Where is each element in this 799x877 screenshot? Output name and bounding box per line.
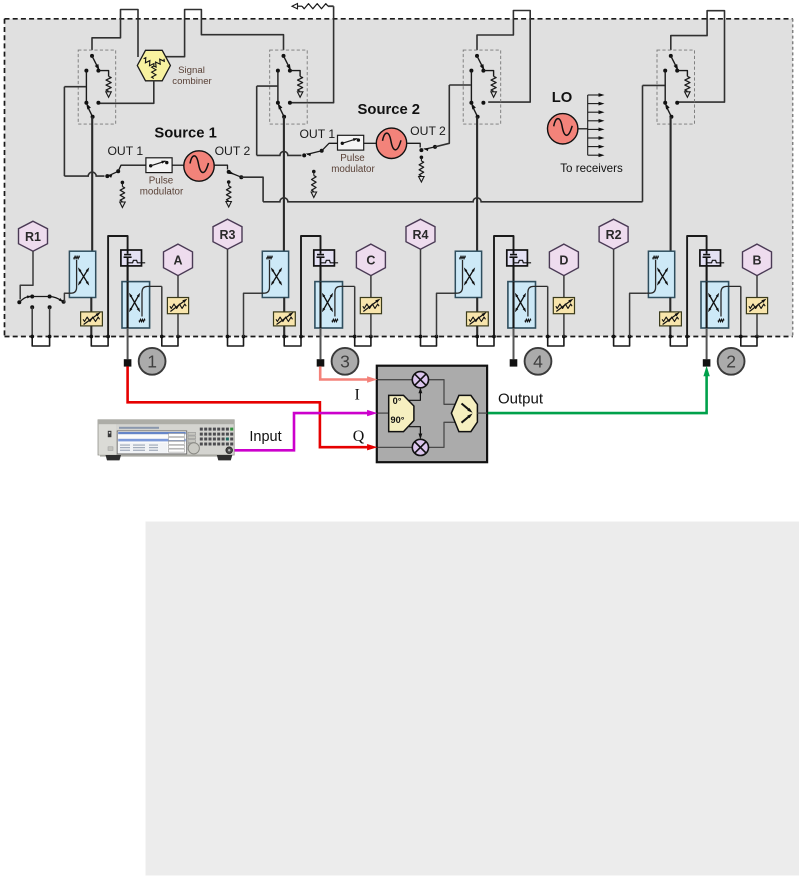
diagram background panel [5, 19, 793, 337]
wire attenuator to jumper port4 [476, 326, 478, 337]
front-panel jumper R3 [226, 335, 246, 346]
label pulse modulator source2 [331, 153, 375, 175]
label pulse modulator source1 [140, 176, 184, 198]
wire D to attenuator [563, 276, 565, 298]
label I [355, 387, 360, 404]
svg-text:modulator: modulator [140, 187, 184, 198]
svg-text:LO: LO [552, 90, 573, 106]
resistor R-term top external [298, 4, 334, 9]
wire bias to coupler B port4 [512, 266, 514, 282]
label signal combiner [172, 65, 212, 87]
svg-text:1: 1 [147, 352, 157, 372]
wire SW1 main vertical [91, 117, 93, 252]
wire attenuator to jumper port2 [669, 326, 671, 337]
wire mixer1 to combiner [429, 380, 456, 405]
wire attenuator B to jumper port3 [370, 314, 372, 337]
switch box SW3 (source2 out2) dashed outline and contacts [463, 50, 501, 124]
label Source 1 [154, 125, 217, 141]
step attenuator A port4 [467, 298, 489, 326]
wire coupled arm to jumper port2 [740, 286, 742, 336]
wire loop port2 switch pole [671, 11, 725, 102]
node B hexagon [743, 244, 772, 276]
mixer M1 [412, 372, 428, 388]
bottom gray placeholder panel [146, 522, 799, 876]
label OUT 1 source2 [299, 127, 335, 141]
step attenuator A port2 [660, 298, 682, 326]
ground top external [292, 4, 298, 9]
wire SW4 main vertical [670, 117, 672, 251]
svg-text:90°: 90° [391, 415, 405, 425]
front-panel jumper source path port3 [282, 335, 303, 346]
pulse modulator U2 source2 [338, 135, 364, 150]
svg-text:R4: R4 [413, 228, 429, 242]
wire pulsemod2 to source2 [364, 142, 377, 144]
wire attenuator B to jumper port4 [563, 314, 565, 337]
svg-text:R3: R3 [220, 228, 236, 242]
port 1 connector square [124, 359, 132, 366]
splitter to mixer2 arrow [409, 427, 422, 440]
bias pulse box port3 [314, 250, 338, 266]
dashed border top [5, 18, 793, 20]
step attenuator B port1 [167, 297, 188, 313]
node C hexagon [356, 244, 385, 276]
wire source1 to out2 switch [214, 165, 227, 169]
front-panel jumper R4 [419, 335, 439, 346]
source 1 oscillator [184, 151, 214, 181]
wire combiner to output [477, 412, 487, 414]
label OUT 2 source2 [410, 124, 446, 138]
wire bias to coupler B port3 [319, 266, 321, 282]
svg-text:Source 1: Source 1 [154, 125, 217, 141]
switch source1 out1 [105, 165, 146, 178]
wire R1 to transfer switch [20, 251, 33, 299]
bias pulse box port2 [700, 250, 724, 266]
wire coupled arm to jumper port1 [161, 286, 163, 336]
step attenuator B port2 [746, 297, 767, 313]
port 4 connector square [510, 359, 518, 366]
svg-text:D: D [559, 254, 568, 268]
front-panel jumper R1 [30, 335, 51, 346]
coupler box A port3 [261, 251, 289, 297]
wire attenuator to jumper port3 [283, 326, 285, 337]
LO oscillator [548, 114, 578, 144]
step attenuator B port3 [360, 297, 381, 313]
source 2 oscillator [376, 128, 406, 158]
wire source2 out2 to SW3 [435, 85, 449, 147]
wire source1 out2 to port2 switch [241, 85, 642, 201]
wire jumper to port path port3 [301, 236, 321, 337]
wire jumper to port path port2 [687, 236, 707, 337]
bias pulse box port4 [507, 250, 531, 266]
front-panel jumper receiver port4 [546, 335, 566, 346]
wire port line port2 [706, 328, 708, 359]
front-panel jumper receiver port3 [353, 335, 373, 346]
svg-text:C: C [366, 254, 375, 268]
port 3 number circle [332, 348, 359, 375]
wire I input internal [378, 379, 412, 381]
wire jumper to coupler arm port4 [437, 293, 454, 336]
switch box SW2 (source2 out1) dashed outline and contacts [270, 50, 308, 124]
wire R3 to jumper [227, 249, 229, 336]
port 2 connector square [703, 359, 711, 366]
port 1 number circle [139, 348, 166, 375]
wire LO splitter internal [378, 412, 389, 414]
wire attenuator to jumper port1 [90, 326, 92, 337]
label OUT 2 source1 [215, 144, 251, 158]
quadrature splitter [389, 395, 414, 431]
dashed border bottom [5, 336, 793, 338]
front-panel jumper R2 [612, 335, 632, 346]
svg-text:0°: 0° [393, 396, 402, 406]
wire bias to coupler B port1 [127, 266, 129, 282]
terminator source1 out2 [226, 180, 232, 207]
pulse modulator U1 source1 [146, 158, 172, 173]
svg-text:B: B [752, 254, 761, 268]
label Source 2 [358, 102, 421, 118]
wire R2 to jumper [613, 249, 615, 336]
splitter to mixer1 arrow [409, 387, 422, 400]
label To receivers [560, 162, 623, 175]
signal generator instrument [98, 420, 234, 461]
wire SW3 main vertical [476, 117, 478, 251]
cable port3 to I (salmon) [320, 366, 377, 382]
wire transfer switch to coupler arm port1 [64, 293, 69, 302]
svg-text:Signal: Signal [178, 65, 205, 76]
front-panel jumper source path port2 [668, 335, 689, 346]
wire B to attenuator [756, 276, 758, 298]
wire SW2 left feed [257, 85, 278, 87]
svg-text:modulator: modulator [331, 164, 375, 175]
terminator source1 out1 [120, 181, 126, 208]
wire bias to coupler B port2 [706, 266, 708, 282]
port 3 connector square [317, 359, 325, 366]
transfer switch R1 [17, 295, 65, 305]
wire jumper to port path port1 [108, 236, 128, 337]
coupler box A port2 [647, 251, 675, 297]
wire source1 out1 feed [64, 87, 104, 176]
wire attenuator B to jumper port1 [177, 314, 179, 337]
svg-text:A: A [173, 254, 182, 268]
wire loop to combiner left input [92, 10, 138, 58]
label Output [498, 391, 544, 408]
wire port line port4 [513, 328, 515, 359]
wire SW4 left feed [643, 84, 665, 86]
wire C to attenuator [370, 276, 372, 298]
switch source1 out2 [227, 170, 244, 179]
svg-text:Pulse: Pulse [340, 153, 365, 164]
bias pulse box port1 [121, 250, 145, 266]
svg-text:4: 4 [533, 352, 543, 372]
label Q [353, 428, 365, 445]
terminator source2 out1 [311, 170, 317, 198]
node R3 hexagon [213, 219, 242, 249]
wire coupled arm to jumper port3 [354, 286, 356, 336]
dashed border right [792, 19, 794, 337]
step attenuator A port1 [81, 298, 103, 326]
svg-text:OUT 1: OUT 1 [107, 144, 143, 158]
wire jumper to coupler arm port2 [630, 293, 647, 336]
switch source2 out1 [302, 143, 337, 157]
wire A to attenuator [177, 276, 179, 298]
coupler box A port1 [68, 251, 96, 297]
IQ modulator box [377, 366, 487, 463]
output combiner amplifier [451, 395, 477, 431]
signal combiner hexagon [137, 50, 170, 81]
step attenuator B port4 [553, 297, 574, 313]
svg-text:R2: R2 [606, 228, 622, 242]
wire Q input internal [378, 446, 412, 448]
cable output to port2 (green) [488, 366, 710, 413]
wire loop to combiner right input [166, 10, 284, 57]
coupler box B port2 [701, 282, 741, 328]
wire SW2 to source2 out1 [257, 86, 302, 155]
front-panel jumper receiver port2 [739, 335, 759, 346]
terminator source2 out2 [419, 156, 425, 183]
coupler box B port3 [315, 282, 355, 328]
LO distribution arrows to receivers [578, 93, 605, 157]
front-panel jumper source path port1 [89, 335, 110, 346]
mixer M2 [412, 439, 428, 455]
coupler box A port4 [454, 251, 482, 297]
node D hexagon [549, 244, 578, 276]
label Input [249, 429, 281, 445]
svg-text:combiner: combiner [172, 76, 212, 87]
wire R4 to jumper [420, 249, 422, 336]
svg-text:Output: Output [498, 391, 544, 408]
wire port line port3 [320, 328, 322, 359]
step attenuator A port3 [274, 298, 296, 326]
svg-text:OUT 2: OUT 2 [410, 124, 446, 138]
wire SW3 left feed [449, 84, 471, 86]
svg-text:3: 3 [340, 352, 350, 372]
switch source2 out2 [419, 145, 437, 152]
wire coupled arm to jumper port4 [547, 286, 549, 336]
wire attenuator B to jumper port2 [756, 314, 758, 337]
wire jumper to port path port4 [494, 236, 514, 337]
svg-text:OUT 1: OUT 1 [299, 127, 335, 141]
switch box SW1 (port1/combiner) dashed outline and contacts [78, 50, 116, 124]
wire SW2 main vertical [283, 117, 285, 251]
svg-text:Q: Q [353, 428, 365, 445]
node A hexagon [164, 244, 193, 276]
wire source2 to out2 switch [407, 143, 421, 147]
node R4 hexagon [406, 219, 435, 249]
wire ext resistor to switch2 [289, 6, 334, 103]
label OUT 1 source1 [107, 144, 143, 158]
svg-text:R1: R1 [25, 230, 41, 244]
wire loop source2 switch pole [477, 11, 530, 103]
wire port line port1 [127, 328, 129, 359]
port 2 number circle [718, 348, 745, 375]
wire mixer2 to combiner [429, 422, 456, 447]
coupler box B port1 [122, 282, 162, 328]
transfer switch stubs to jumpers [30, 305, 51, 336]
svg-text:Input: Input [249, 429, 281, 445]
wire SW1 left feed [64, 86, 86, 88]
label LO [552, 90, 573, 106]
switch box SW4 (port2) dashed outline and contacts [657, 50, 695, 124]
node R1 hexagon [19, 221, 48, 251]
svg-text:To receivers: To receivers [560, 162, 623, 175]
wire pulsemod to source1 [172, 164, 184, 166]
cable input to LO (magenta) [233, 410, 378, 450]
front-panel jumper receiver port1 [160, 335, 180, 346]
coupler box B port4 [508, 282, 548, 328]
cable port1 to Q (red) [128, 366, 378, 450]
svg-text:OUT 2: OUT 2 [215, 144, 251, 158]
wire combiner output down [99, 81, 154, 104]
svg-text:2: 2 [726, 352, 736, 372]
port 4 number circle [525, 348, 552, 375]
node R2 hexagon [599, 219, 628, 249]
svg-text:I: I [355, 387, 360, 404]
dashed border left [4, 19, 6, 337]
svg-text:Source 2: Source 2 [358, 102, 421, 118]
svg-text:Pulse: Pulse [149, 176, 174, 187]
front-panel jumper source path port4 [475, 335, 496, 346]
wire jumper to coupler arm port3 [244, 293, 261, 336]
